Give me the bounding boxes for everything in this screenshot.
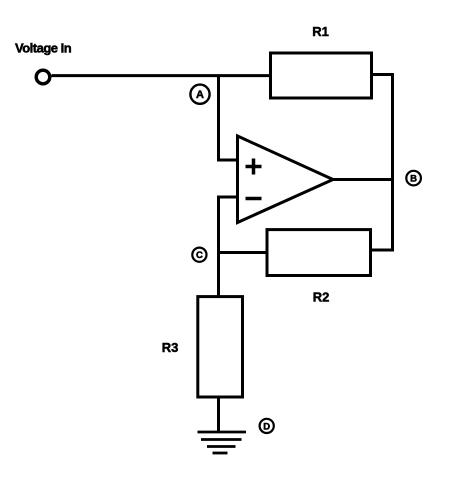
op-amp U1 (238, 136, 334, 223)
resistor R1 (271, 53, 372, 98)
ground (198, 432, 247, 453)
svg-text:D: D (263, 421, 270, 432)
wire - input up from node C (219, 197, 240, 254)
wire node A down to + input (219, 76, 240, 160)
node A (190, 85, 209, 104)
wire input to node A to R1 (52, 74, 273, 77)
svg-text:B: B (410, 174, 417, 185)
node C (192, 248, 206, 262)
svg-text:R3: R3 (162, 340, 179, 355)
svg-text:A: A (196, 89, 204, 101)
node B (406, 171, 421, 186)
svg-text:C: C (196, 250, 203, 261)
svg-text:Voltage In: Voltage In (15, 41, 72, 56)
wire node C down to R3 (217, 253, 220, 298)
svg-text:R2: R2 (313, 290, 330, 305)
wire R1 right to feedback bus (371, 75, 393, 251)
resistor R3 (198, 297, 243, 397)
wire R3 to ground (217, 397, 220, 432)
wire node C to R2 (219, 251, 268, 254)
svg-text:R1: R1 (312, 24, 329, 39)
resistor R2 (267, 230, 371, 276)
wire op-amp output to node B (333, 178, 394, 181)
node D (260, 419, 274, 433)
input terminal (36, 70, 50, 84)
